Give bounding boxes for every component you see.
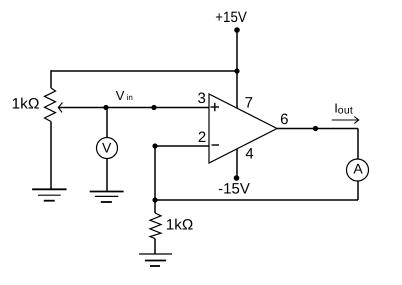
wire resistor top lead bbox=[154, 200, 156, 213]
wire feedback vertical bbox=[154, 146, 156, 200]
svg-text:1kΩ: 1kΩ bbox=[12, 96, 40, 113]
wire top horizontal bbox=[51, 70, 237, 72]
node pin2 junction bbox=[152, 143, 157, 148]
op-amp U1 triangle bbox=[209, 94, 277, 163]
op-amp plus sign bbox=[211, 103, 220, 111]
svg-text:6: 6 bbox=[280, 111, 288, 128]
wire bottom horizontal return bbox=[155, 199, 358, 201]
terminal dot -15V bbox=[234, 175, 240, 181]
potentiometer R1 1k body bbox=[45, 88, 56, 122]
svg-text:V: V bbox=[102, 140, 112, 156]
wire pin2 horizontal bbox=[155, 145, 209, 147]
wire output from apex bbox=[277, 128, 358, 130]
node bottom junction bbox=[152, 197, 157, 202]
wire left corner down to pot top bbox=[50, 70, 52, 88]
wire +15V down to junction bbox=[236, 30, 238, 71]
ground G3 bbox=[139, 254, 172, 266]
wire pin4 lead down bbox=[236, 149, 238, 178]
svg-text:7: 7 bbox=[245, 95, 253, 112]
svg-text:1kΩ: 1kΩ bbox=[166, 216, 194, 233]
wire Vin horizontal to pin3 bbox=[58, 107, 209, 109]
wire voltmeter top lead bbox=[106, 108, 108, 138]
wire ammeter bottom lead bbox=[357, 181, 359, 200]
ammeter M2 circle bbox=[347, 159, 369, 181]
wire voltmeter bottom lead bbox=[106, 159, 108, 192]
svg-text:-15V: -15V bbox=[218, 181, 250, 198]
svg-text:V: V bbox=[116, 88, 125, 103]
node mid dot on Vin wire bbox=[151, 105, 156, 110]
svg-text:4: 4 bbox=[245, 146, 253, 163]
svg-text:in: in bbox=[127, 93, 133, 102]
svg-text:out: out bbox=[338, 105, 353, 117]
ground G2 bbox=[90, 192, 124, 203]
wire right vertical to ammeter bbox=[357, 129, 359, 160]
svg-text:3: 3 bbox=[197, 90, 205, 107]
node Vin bbox=[103, 105, 108, 110]
svg-text:2: 2 bbox=[198, 129, 206, 146]
wire pin7 from junction to op-amp bbox=[236, 71, 238, 108]
current arrow Iout bbox=[332, 117, 359, 124]
terminal dot +15V bbox=[234, 27, 240, 33]
node output dot bbox=[313, 126, 318, 131]
ground G1 bbox=[32, 189, 67, 200]
svg-text:+15V: +15V bbox=[215, 9, 247, 26]
svg-text:A: A bbox=[353, 161, 363, 177]
resistor R2 1k body bbox=[150, 213, 161, 239]
potentiometer wiper arrow bbox=[58, 103, 62, 113]
wire resistor bottom lead bbox=[154, 239, 156, 255]
op-amp minus sign bbox=[212, 144, 220, 146]
wire pot bottom lead bbox=[50, 122, 52, 190]
node junction top bbox=[234, 68, 239, 73]
voltmeter M1 circle bbox=[97, 138, 118, 159]
